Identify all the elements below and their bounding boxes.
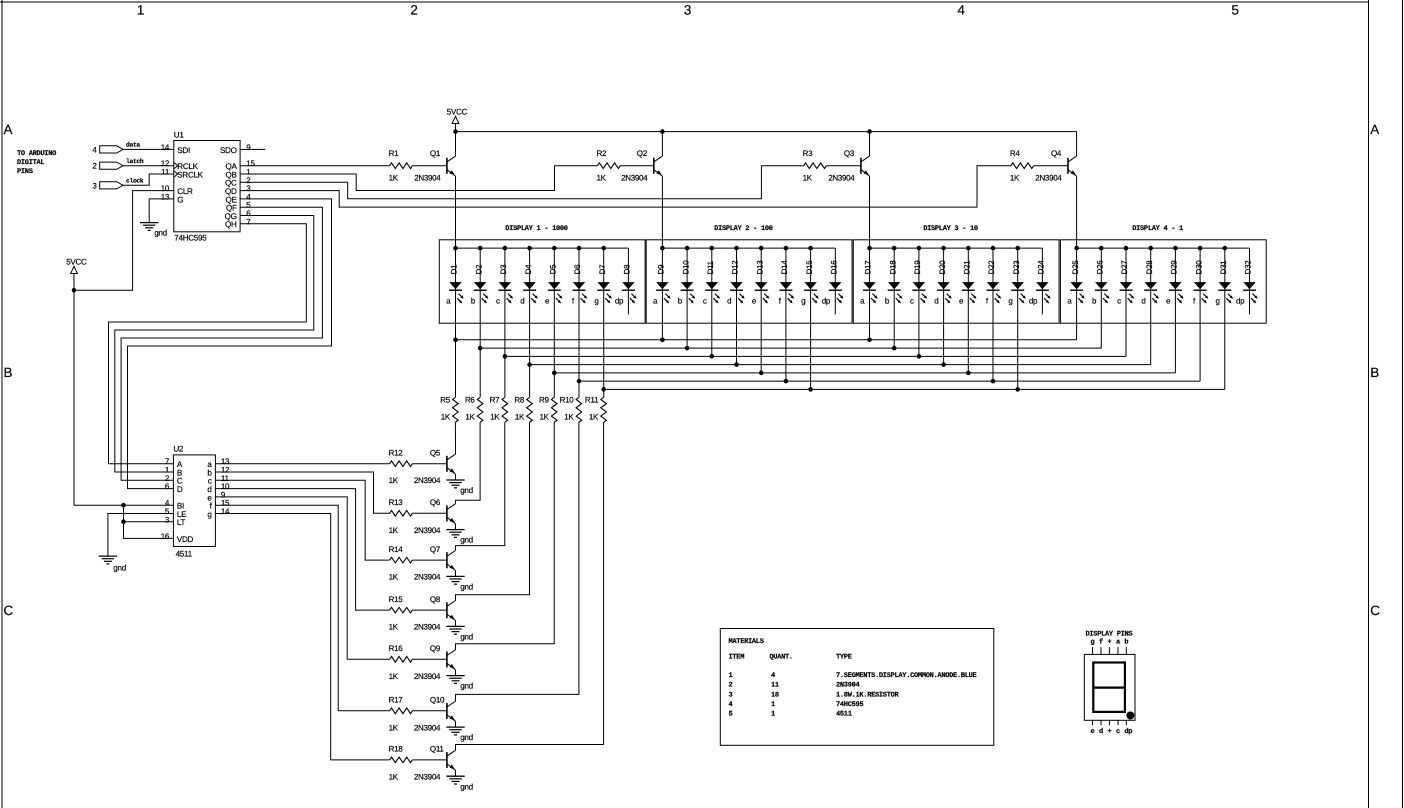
svg-text:U2: U2	[173, 445, 184, 454]
svg-text:gnd: gnd	[460, 782, 473, 791]
svg-text:2N3904: 2N3904	[414, 526, 441, 535]
svg-text:D6: D6	[573, 264, 582, 274]
svg-text:1K: 1K	[389, 174, 399, 183]
svg-text:B: B	[4, 365, 13, 380]
svg-text:TYPE: TYPE	[836, 654, 852, 662]
wire U2 output g to R18	[215, 514, 389, 760]
wire D13 cathode (segment e)	[759, 248, 764, 375]
wire segment b bus row	[480, 347, 1101, 349]
svg-text:1K: 1K	[803, 174, 813, 183]
wire Q5 emitter to ground	[455, 474, 457, 480]
svg-text:MATERIALS: MATERIALS	[729, 638, 764, 646]
connector pin 4 (data)	[92, 142, 140, 155]
resistor R10 1K	[560, 396, 582, 423]
legend DISPLAY PINS 7-segment pinout	[1084, 631, 1135, 736]
wire segment d bus row	[530, 364, 1151, 366]
transistor Q6 2N3904	[414, 498, 456, 535]
svg-text:D22: D22	[987, 260, 996, 275]
svg-text:1.8W.1K.RESISTOR: 1.8W.1K.RESISTOR	[836, 691, 900, 699]
wire display 4 anode bus	[1074, 246, 1249, 251]
wire display 1 anode bus	[453, 246, 628, 251]
wire Q8 collector to R8	[456, 422, 530, 600]
svg-text:dp: dp	[1236, 297, 1245, 306]
LED D21 (segment e)	[959, 260, 977, 306]
LED D2 (segment b)	[471, 264, 489, 306]
svg-text:f: f	[1099, 637, 1103, 646]
svg-text:VDD: VDD	[177, 535, 194, 544]
wire 5VCC rail	[456, 131, 1077, 133]
LED D4 (segment d)	[520, 264, 538, 306]
wire D25 cathode (segment a)	[1076, 248, 1078, 340]
power 5VCC (left)	[66, 257, 87, 290]
svg-text:2N3904: 2N3904	[414, 723, 441, 732]
svg-text:Q1: Q1	[430, 149, 441, 158]
IC U1 74HC595 shift register	[161, 130, 256, 242]
svg-text:R4: R4	[1010, 149, 1020, 158]
wire D17 cathode (segment a)	[867, 248, 872, 342]
svg-text:D12: D12	[731, 260, 740, 275]
svg-text:D21: D21	[963, 260, 972, 275]
IC U2 4511 BCD to 7-segment decoder	[161, 445, 230, 559]
wire U1 G pin 13 to ground	[149, 199, 174, 223]
svg-text:R17: R17	[389, 696, 404, 705]
svg-text:R3: R3	[803, 149, 813, 158]
resistor R8 1K	[514, 396, 532, 423]
LED D10 (segment b)	[678, 260, 696, 306]
ground gnd (Q5)	[446, 480, 473, 495]
wire D31 cathode (segment g)	[1224, 248, 1226, 389]
wire D21 cathode (segment e)	[966, 248, 971, 375]
svg-text:R1: R1	[389, 149, 399, 158]
wire D4 cathode (segment d)	[527, 248, 532, 397]
svg-text:R2: R2	[597, 149, 607, 158]
wire Q8 emitter to ground	[455, 621, 457, 627]
wire Q5 collector to R5	[454, 422, 456, 454]
wire D12 cathode (segment d)	[734, 248, 739, 367]
wire D11 cathode (segment c)	[710, 248, 715, 359]
svg-text:C: C	[4, 603, 14, 618]
svg-text:e: e	[1091, 728, 1095, 736]
LED D23 (segment g)	[1008, 260, 1026, 306]
svg-text:c: c	[910, 297, 914, 306]
svg-text:SRCLK: SRCLK	[177, 170, 203, 179]
svg-text:c: c	[1117, 297, 1121, 306]
svg-text:R12: R12	[389, 448, 404, 457]
transistor Q5 2N3904	[414, 448, 456, 485]
wire Q9 collector to R9	[456, 422, 555, 649]
svg-text:2: 2	[729, 682, 733, 690]
wire segment g bus row	[604, 388, 1225, 390]
wire U2 output f to R17	[215, 505, 389, 711]
svg-text:D18: D18	[888, 260, 897, 275]
svg-text:c: c	[496, 297, 500, 306]
wire BI to LT	[123, 505, 125, 522]
svg-text:13: 13	[161, 192, 170, 201]
svg-text:QUANT.: QUANT.	[769, 654, 792, 662]
svg-text:1: 1	[137, 2, 144, 17]
svg-text:C: C	[1370, 603, 1380, 618]
wire D15 cathode (segment g)	[808, 248, 813, 392]
svg-text:dp: dp	[615, 297, 624, 306]
svg-text:d: d	[1099, 727, 1103, 736]
svg-text:Q3: Q3	[844, 149, 855, 158]
wire D6 cathode (segment f)	[577, 248, 582, 397]
svg-text:Q4: Q4	[1051, 149, 1062, 158]
svg-text:1K: 1K	[389, 573, 399, 582]
wire U1 SDO pin 9 stub	[240, 148, 265, 150]
junction rail at Q1	[453, 129, 458, 134]
svg-text:dp: dp	[1029, 297, 1038, 306]
svg-text:14: 14	[161, 143, 170, 152]
ground gnd (U1)	[140, 223, 167, 238]
svg-text:D8: D8	[623, 264, 632, 274]
svg-text:3: 3	[684, 2, 691, 17]
transistor Q7 2N3904	[414, 545, 456, 582]
LED D18 (segment b)	[885, 260, 903, 306]
LED D9 (segment a)	[653, 264, 671, 306]
connector pin 3 (clock)	[92, 178, 144, 191]
svg-text:dp: dp	[822, 297, 831, 306]
wire segment e bus row	[554, 372, 1175, 374]
svg-text:5: 5	[1231, 2, 1238, 17]
svg-text:g: g	[801, 297, 805, 306]
svg-text:D19: D19	[913, 260, 922, 275]
wire D19 cathode (segment c)	[917, 248, 922, 359]
wire D27 cathode (segment c)	[1125, 248, 1127, 356]
wire U1 QF pin 5 to U2 C	[121, 207, 322, 480]
ground gnd (Q6)	[446, 530, 473, 545]
ground gnd (Q8)	[446, 626, 473, 641]
svg-text:gnd: gnd	[460, 536, 473, 545]
svg-text:+: +	[1107, 638, 1111, 646]
wire Q1 collector to 5VCC rail	[455, 132, 457, 157]
wire Q6 emitter to ground	[455, 524, 457, 530]
LED D6 (segment f)	[572, 264, 587, 306]
transistor Q11 2N3904	[414, 745, 456, 782]
wire Q7 collector to R7	[456, 422, 505, 550]
wire latch to U1 RCLK	[123, 165, 174, 167]
wire R15 to Q8 base	[412, 609, 447, 611]
svg-text:1K: 1K	[389, 623, 399, 632]
svg-text:11: 11	[161, 168, 170, 177]
wire D18 cathode (segment b)	[892, 248, 897, 350]
resistor R3 1K	[803, 149, 827, 183]
wire clock to U1 SRCLK	[123, 174, 174, 185]
svg-text:d: d	[1141, 297, 1145, 306]
svg-text:1K: 1K	[465, 413, 475, 422]
svg-text:D23: D23	[1012, 260, 1021, 275]
svg-text:R7: R7	[490, 396, 500, 405]
svg-text:D4: D4	[524, 264, 533, 274]
svg-text:A: A	[4, 122, 13, 137]
LED D8 (segment dp)	[615, 264, 637, 306]
resistor R18 1K	[389, 745, 413, 782]
svg-text:ITEM: ITEM	[729, 654, 745, 662]
svg-text:Q10: Q10	[430, 696, 445, 705]
svg-text:2N3904: 2N3904	[621, 174, 648, 183]
wire display 3 anode bus	[867, 246, 1042, 251]
svg-text:1K: 1K	[441, 413, 451, 422]
note TO ARDUINO DIGITAL PINS	[17, 150, 56, 176]
svg-text:DISPLAY 3 - 10: DISPLAY 3 - 10	[923, 225, 978, 233]
svg-text:4511: 4511	[176, 550, 193, 559]
svg-text:R6: R6	[465, 396, 475, 405]
resistor R12 1K	[389, 448, 413, 485]
wire D14 cathode (segment f)	[784, 248, 789, 383]
svg-text:D16: D16	[830, 260, 839, 275]
power 5VCC (top rail)	[447, 107, 468, 131]
transistor Q8 2N3904	[414, 595, 456, 632]
wire R14 to Q7 base	[412, 559, 447, 561]
LED D29 (segment e)	[1166, 260, 1184, 306]
svg-text:DISPLAY 1 - 1000: DISPLAY 1 - 1000	[505, 225, 568, 233]
resistor R15 1K	[389, 595, 413, 632]
svg-text:R16: R16	[389, 644, 404, 653]
svg-text:1: 1	[771, 701, 775, 709]
LED D32 (segment dp)	[1236, 260, 1258, 306]
svg-text:TO ARDUINO: TO ARDUINO	[17, 150, 56, 158]
svg-text:1K: 1K	[389, 723, 399, 732]
svg-text:latch: latch	[126, 158, 144, 165]
LED D12 (segment d)	[727, 260, 745, 306]
LED D20 (segment d)	[934, 260, 952, 306]
wire D10 cathode (segment b)	[685, 248, 690, 350]
wire LT to U2 pin 3	[124, 521, 174, 523]
svg-text:R14: R14	[389, 545, 404, 554]
svg-text:D29: D29	[1170, 260, 1179, 275]
svg-text:D30: D30	[1194, 260, 1203, 275]
svg-text:4: 4	[957, 2, 965, 17]
ground gnd (U2 LE)	[99, 556, 126, 572]
svg-text:QH: QH	[225, 220, 237, 229]
wire segment a bus row	[455, 339, 1076, 341]
svg-text:11: 11	[771, 682, 779, 690]
LED D27 (segment c)	[1117, 260, 1134, 306]
svg-text:R10: R10	[560, 396, 575, 405]
LED D13 (segment e)	[752, 260, 770, 306]
svg-text:d: d	[520, 297, 524, 306]
svg-text:7.SEGMENTS.DISPLAY.COMMON.ANOD: 7.SEGMENTS.DISPLAY.COMMON.ANODE.BLUE	[836, 672, 977, 680]
LED D30 (segment f)	[1193, 260, 1208, 306]
svg-text:D15: D15	[805, 260, 814, 275]
svg-text:5VCC: 5VCC	[447, 107, 468, 116]
resistor R2 1K	[597, 149, 621, 183]
svg-text:1K: 1K	[540, 413, 550, 422]
wire segment c bus row	[505, 355, 1126, 357]
svg-text:LT: LT	[177, 518, 186, 527]
wire D5 cathode (segment e)	[552, 248, 557, 397]
svg-text:c: c	[703, 297, 707, 306]
ground gnd (Q11)	[446, 776, 473, 791]
svg-text:gnd: gnd	[460, 633, 473, 642]
svg-text:+: +	[1107, 728, 1111, 736]
svg-text:g: g	[207, 510, 211, 519]
wire Q2 collector to 5VCC rail	[661, 132, 663, 157]
svg-text:gnd: gnd	[460, 682, 473, 691]
wire Q1 emitter to display 1 anode bus	[455, 176, 457, 248]
svg-text:SDI: SDI	[177, 146, 190, 155]
svg-text:D13: D13	[755, 260, 764, 275]
wire Q3 collector to 5VCC rail	[869, 132, 871, 157]
svg-text:D14: D14	[780, 260, 789, 275]
svg-text:c: c	[1116, 728, 1120, 736]
LED D15 (segment g)	[801, 260, 819, 306]
wire display 2 anode bus	[660, 246, 835, 251]
svg-text:2N3904: 2N3904	[414, 476, 441, 485]
svg-text:1K: 1K	[589, 413, 599, 422]
svg-text:G: G	[177, 195, 183, 204]
wire D26 cathode (segment b)	[1100, 248, 1102, 348]
wire D8 cathode (dp, unconnected)	[627, 248, 629, 314]
svg-text:1K: 1K	[597, 174, 607, 183]
transistor Q1 2N3904	[414, 149, 455, 183]
wire R17 to Q10 base	[412, 710, 447, 712]
svg-text:DIGITAL: DIGITAL	[17, 159, 44, 167]
LED D22 (segment f)	[986, 260, 1001, 306]
resistor R6 1K	[465, 396, 483, 423]
svg-text:1K: 1K	[490, 413, 500, 422]
svg-text:gnd: gnd	[460, 733, 473, 742]
wire R18 to Q11 base	[412, 759, 447, 761]
LED D5 (segment e)	[545, 264, 563, 306]
display 2 box DISPLAY 2 - 100	[646, 225, 852, 323]
svg-text:gnd: gnd	[460, 486, 473, 495]
wire R16 to Q9 base	[412, 658, 447, 660]
svg-text:dp: dp	[1124, 727, 1132, 736]
LED D14 (segment f)	[779, 260, 794, 306]
wire D9 cathode (segment a)	[660, 248, 665, 342]
svg-text:2N3904: 2N3904	[828, 174, 855, 183]
wire D20 cathode (segment d)	[941, 248, 946, 367]
wire U2 output b to R13	[215, 472, 389, 513]
table MATERIALS bill of materials	[720, 629, 994, 746]
wire 5VCC to U2 BI pin 4	[74, 290, 173, 505]
svg-text:g: g	[1215, 297, 1219, 306]
LED D26 (segment b)	[1092, 260, 1110, 306]
wire D29 cathode (segment e)	[1174, 248, 1176, 373]
resistor R14 1K	[389, 545, 413, 582]
svg-text:DISPLAY PINS: DISPLAY PINS	[1086, 631, 1133, 639]
svg-text:D32: D32	[1244, 260, 1253, 275]
LED D17 (segment a)	[860, 260, 878, 306]
wire Q2 emitter to display 2 anode bus	[661, 176, 663, 248]
wire D16 cathode (dp, unconnected)	[834, 248, 836, 314]
svg-text:g: g	[1008, 297, 1012, 306]
wire U1 QD pin 3 to R4	[240, 166, 1011, 207]
resistor R16 1K	[389, 644, 413, 681]
wire R3 to Q3 base	[826, 165, 861, 167]
wire D7 cathode (segment g)	[601, 248, 606, 397]
svg-text:D24: D24	[1037, 260, 1046, 275]
svg-text:gnd: gnd	[460, 583, 473, 592]
LED D28 (segment d)	[1141, 260, 1159, 306]
svg-text:R15: R15	[389, 595, 404, 604]
transistor Q3 2N3904	[828, 149, 869, 183]
svg-text:PINS: PINS	[17, 168, 33, 176]
LED D3 (segment c)	[496, 264, 513, 306]
resistor R9 1K	[539, 396, 557, 423]
svg-text:R18: R18	[389, 745, 404, 754]
svg-text:D: D	[177, 485, 183, 494]
wire D24 cathode (dp, unconnected)	[1041, 248, 1043, 314]
ground gnd (Q9)	[446, 676, 473, 691]
svg-text:D1: D1	[450, 264, 459, 274]
svg-text:1K: 1K	[389, 526, 399, 535]
svg-text:d: d	[934, 297, 938, 306]
wire data to U1 SDI	[123, 148, 174, 150]
resistor R17 1K	[389, 696, 413, 733]
svg-text:Q5: Q5	[430, 448, 441, 457]
svg-text:1K: 1K	[389, 476, 399, 485]
svg-text:D31: D31	[1219, 260, 1228, 275]
svg-text:DISPLAY 2 - 100: DISPLAY 2 - 100	[714, 225, 773, 233]
connector pin 2 (latch)	[92, 158, 144, 171]
svg-text:D2: D2	[474, 264, 483, 274]
svg-text:1K: 1K	[389, 772, 399, 781]
svg-text:R8: R8	[514, 396, 524, 405]
svg-text:2N3904: 2N3904	[1035, 174, 1062, 183]
wire U1 QH pin 7 to U2 A	[109, 224, 307, 464]
wire R12 to Q5 base	[412, 463, 447, 465]
LED D7 (segment g)	[594, 264, 612, 306]
svg-text:2N3904: 2N3904	[414, 672, 441, 681]
wire R2 to Q2 base	[620, 165, 654, 167]
svg-text:D3: D3	[499, 264, 508, 274]
wire D3 cathode (segment c)	[503, 248, 508, 397]
wire U1 QA pin 15 to R1	[240, 165, 390, 167]
svg-text:d: d	[727, 297, 731, 306]
svg-text:R11: R11	[585, 396, 599, 405]
svg-text:4: 4	[771, 672, 775, 680]
LED D31 (segment g)	[1215, 260, 1233, 306]
svg-text:A: A	[1370, 122, 1379, 137]
display 4 box DISPLAY 4 - 1	[1060, 225, 1266, 323]
svg-text:gnd: gnd	[113, 563, 126, 572]
svg-text:16: 16	[161, 532, 170, 541]
svg-text:1: 1	[729, 672, 733, 680]
resistor R13 1K	[389, 498, 413, 535]
wire D28 cathode (segment d)	[1150, 248, 1152, 365]
wire R4 to Q4 base	[1034, 165, 1068, 167]
svg-text:2N3904: 2N3904	[836, 682, 860, 690]
LED D25 (segment a)	[1067, 260, 1085, 306]
wire Q11 emitter to ground	[455, 770, 457, 776]
svg-text:5: 5	[729, 711, 733, 719]
svg-text:B: B	[1370, 365, 1379, 380]
ground gnd (Q7)	[446, 576, 473, 591]
junction rail at Q3	[867, 129, 872, 134]
wire Q3 emitter to display 3 anode bus	[869, 176, 871, 248]
transistor Q9 2N3904	[414, 644, 456, 681]
LED D11 (segment c)	[703, 260, 720, 305]
svg-text:2N3904: 2N3904	[414, 772, 441, 781]
wire U1 QB pin 1 to R2	[240, 166, 597, 191]
svg-text:R5: R5	[440, 396, 450, 405]
svg-text:Q6: Q6	[430, 498, 441, 507]
svg-text:Q2: Q2	[637, 149, 648, 158]
svg-text:2: 2	[410, 2, 417, 17]
resistor R4 1K	[1010, 149, 1034, 183]
svg-text:4511: 4511	[836, 711, 852, 719]
svg-text:SDO: SDO	[220, 146, 237, 155]
svg-text:1K: 1K	[389, 672, 399, 681]
wire Q11 collector to R11	[456, 422, 604, 750]
svg-text:data: data	[126, 142, 140, 149]
svg-text:D11: D11	[706, 260, 715, 274]
wire U1 QC pin 2 to R3	[240, 166, 804, 199]
svg-text:Q11: Q11	[430, 745, 444, 754]
wire U2 output a to R12	[215, 463, 389, 465]
